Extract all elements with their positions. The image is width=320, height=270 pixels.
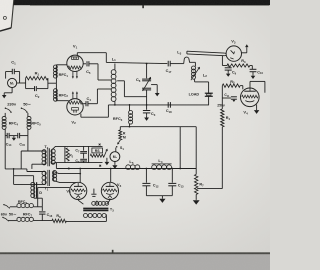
key terminal x upper — [99, 144, 101, 146]
wire T2 to network bottom — [52, 163, 65, 164]
corner label card — [0, 0, 14, 31]
wire V5 cathode to T3 — [78, 198, 83, 204]
keying line — [120, 126, 196, 128]
filter coil L5 — [126, 159, 140, 170]
capacitor C14 — [5, 133, 12, 147]
RF choke RFC5 — [27, 113, 41, 136]
wire C4 to L1 tap — [97, 89, 111, 104]
network rails — [65, 146, 103, 162]
pentode V4 — [241, 88, 260, 115]
ground below M2 — [112, 162, 117, 169]
wire M1 to R1C2 box — [20, 82, 26, 84]
capacitor C10 — [250, 66, 264, 80]
capacitor C16 — [39, 207, 53, 221]
resistor R1 — [26, 71, 48, 89]
label RFC6 — [18, 200, 28, 205]
label 60v 50Hz — [1, 213, 17, 217]
capacitor C13 — [168, 169, 184, 196]
key jack RS — [92, 148, 103, 153]
wire T1 to V5 input — [53, 181, 76, 183]
linear tank line L3 — [177, 49, 226, 55]
wire V6 cathode to T3 — [107, 198, 110, 204]
ground right of RS — [105, 158, 110, 166]
wire keyline to bus tap — [179, 127, 181, 169]
tank coil L1 — [111, 56, 116, 105]
wire V2 plate to bus — [81, 105, 109, 117]
microphone M1 — [6, 72, 20, 88]
wire RFC1 to V1 grid — [56, 64, 67, 66]
RF choke RFC7 — [9, 217, 52, 221]
ground below R7 — [193, 194, 200, 204]
RF choke RFC2 — [54, 83, 69, 101]
switch S1 — [116, 140, 124, 151]
capacitor C12 — [142, 169, 159, 196]
RF choke RFC1 — [54, 65, 69, 83]
B+ bus of oscillator — [108, 104, 209, 106]
RF choke RFC4 — [2, 113, 18, 136]
ground at C6 rotor — [151, 85, 160, 97]
filament bypass between V5 V6 — [91, 189, 96, 197]
wire V1 plate top run — [77, 53, 167, 64]
load capacitor — [205, 93, 213, 96]
switch S3b — [2, 217, 9, 222]
tetrode V6 — [101, 169, 121, 200]
ground between C14 C15 — [9, 136, 17, 141]
triode V2 — [67, 91, 83, 125]
wire R4 to R7 bottom — [197, 127, 222, 189]
variable inductor L2 — [191, 66, 207, 80]
capacitor C5 — [83, 61, 98, 75]
plate supply bus — [56, 163, 196, 170]
wire RFC2 to V2 grid — [56, 100, 68, 102]
wire V4 plate loop — [250, 81, 265, 92]
network mid wire — [88, 146, 90, 162]
key terminal x lower — [99, 165, 101, 167]
wire ladder mid — [14, 169, 34, 176]
resistor R8 — [52, 214, 107, 223]
ground at V4 cathode — [254, 105, 259, 114]
wire box to grid chokes — [48, 82, 57, 84]
wire D to filament line — [34, 198, 42, 207]
resistor R5 — [222, 80, 240, 88]
meter M2 — [110, 148, 120, 162]
wire T1 to V5 grid — [53, 172, 81, 175]
wire left rail down — [5, 136, 27, 170]
capacitor C11 and 250v tap — [217, 86, 237, 109]
ground at M1 — [2, 88, 12, 99]
wire L2 to load cap — [195, 79, 209, 93]
transformer T2 — [42, 145, 55, 166]
capacitor C4 — [83, 96, 97, 106]
wire right rail down — [21, 136, 45, 169]
resistor R3 — [222, 56, 252, 68]
resistor under RS — [90, 154, 104, 157]
switch S2b — [21, 108, 28, 113]
switch S2a — [5, 108, 12, 113]
wire V4 grid — [240, 86, 243, 90]
wire L1 right tap — [117, 81, 146, 97]
capacitor C9 — [225, 66, 237, 77]
swinging choke D — [31, 176, 43, 199]
ground below C12 C13 — [146, 196, 172, 203]
wire V5 screen left — [38, 187, 70, 206]
capacitor C15 — [17, 133, 28, 147]
coupling link to L3 — [170, 57, 195, 66]
wire T2 to network top — [52, 146, 65, 149]
capacitor C1 — [6, 59, 20, 74]
wire load to bus corner — [208, 96, 210, 105]
capacitor C8 — [75, 153, 87, 163]
resistor R2 — [66, 148, 74, 161]
wire keyline to R7 — [195, 127, 197, 175]
antenna arrow at V3 — [242, 44, 249, 53]
capacitor C17 — [166, 61, 172, 74]
label RFC7 — [23, 212, 33, 217]
wire T1 top lead — [27, 169, 45, 172]
RF choke RFC3 — [113, 105, 133, 127]
capacitor C18 — [166, 102, 172, 114]
triode V1 — [67, 44, 83, 79]
LOAD label — [189, 93, 200, 97]
wire T1 bottom lead — [14, 176, 46, 185]
capacitor C2 — [26, 78, 48, 99]
triode V3 — [226, 38, 241, 61]
resistor RM — [119, 127, 126, 140]
arrow tap at RS — [104, 149, 107, 156]
resistor R4 — [221, 109, 231, 127]
capacitor C3 — [143, 105, 156, 121]
page bottom border — [0, 250, 270, 270]
transformer T1 — [42, 170, 57, 192]
wire T2 bottom lead — [32, 164, 45, 169]
split stator capacitor C6 — [136, 63, 151, 105]
resistor R7 — [195, 174, 205, 194]
output transformer T3 — [83, 201, 114, 222]
page top black border — [12, 0, 270, 8]
label 230v 50Hz — [7, 101, 31, 106]
RF choke RFC6 — [10, 204, 42, 208]
tetrode V5 — [66, 169, 86, 200]
filter coil L4 — [152, 158, 172, 170]
capacitor C7 — [75, 146, 87, 153]
switch S3a — [3, 204, 10, 209]
wire C5 to L1 tap — [98, 64, 112, 80]
